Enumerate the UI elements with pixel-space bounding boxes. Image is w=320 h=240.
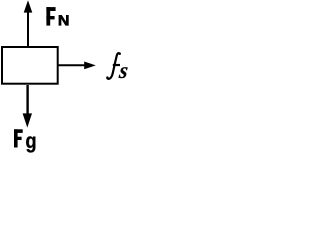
label F of F_g (14, 129, 23, 147)
wire: down arrow shaft (gravity) (26, 85, 28, 114)
wire: right arrow shaft (friction) (58, 64, 85, 66)
arrowhead right (friction) (84, 62, 96, 70)
box (block) (2, 47, 58, 84)
label f of f_s (107, 52, 121, 78)
label s subscript of f_s (118, 67, 127, 78)
label g subscript of F_g (26, 136, 35, 152)
label N subscript of F_N (59, 15, 68, 25)
wire: up arrow shaft (normal force) (27, 11, 29, 47)
label F of F_N (46, 7, 55, 26)
arrowhead down (gravity) (23, 113, 32, 127)
arrowhead up (normal force) (24, 0, 33, 12)
